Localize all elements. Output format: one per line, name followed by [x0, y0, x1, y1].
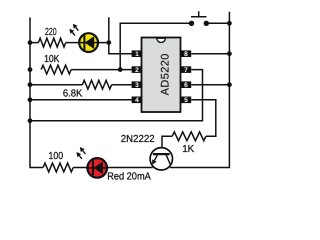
svg-text:Red 20mA: Red 20mA — [107, 172, 151, 183]
svg-text:3: 3 — [135, 82, 139, 89]
svg-text:100: 100 — [49, 151, 64, 162]
svg-text:2: 2 — [135, 67, 139, 74]
svg-text:AD5220: AD5220 — [159, 54, 171, 96]
svg-text:6: 6 — [184, 82, 188, 89]
svg-text:4: 4 — [135, 97, 139, 104]
svg-text:8: 8 — [184, 51, 188, 58]
svg-text:7: 7 — [184, 67, 188, 74]
svg-text:1: 1 — [135, 51, 139, 58]
svg-text:6.8K: 6.8K — [63, 89, 83, 100]
svg-text:2N2222: 2N2222 — [121, 134, 155, 145]
svg-text:1K: 1K — [182, 144, 194, 155]
svg-text:10K: 10K — [44, 54, 59, 65]
svg-text:220: 220 — [45, 27, 57, 38]
svg-text:5: 5 — [184, 97, 188, 104]
